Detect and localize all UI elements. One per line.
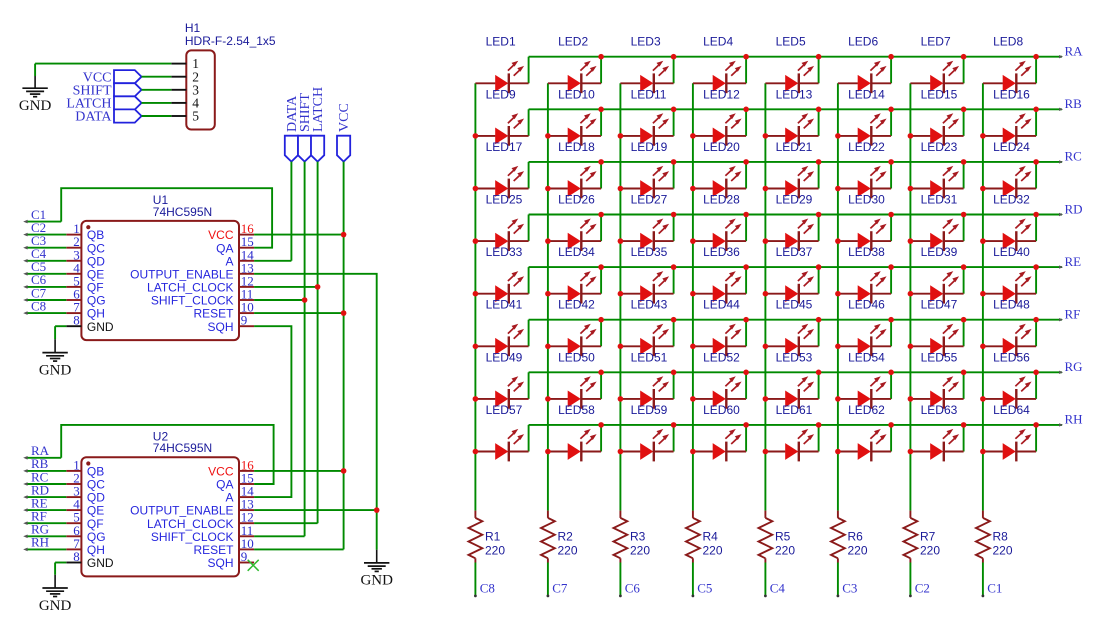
svg-text:QG: QG xyxy=(87,530,106,544)
svg-text:LED38: LED38 xyxy=(848,245,885,259)
svg-text:R7: R7 xyxy=(920,530,936,544)
svg-text:GND: GND xyxy=(87,556,114,570)
svg-text:8: 8 xyxy=(73,313,80,328)
svg-text:LED10: LED10 xyxy=(558,87,595,101)
svg-text:SHIFT_CLOCK: SHIFT_CLOCK xyxy=(151,530,234,544)
svg-text:LED61: LED61 xyxy=(776,403,813,417)
svg-text:5: 5 xyxy=(192,109,199,124)
svg-text:LED11: LED11 xyxy=(631,87,667,101)
svg-text:RF: RF xyxy=(1065,307,1081,322)
svg-text:LED57: LED57 xyxy=(486,403,523,417)
svg-text:C6: C6 xyxy=(625,580,641,595)
svg-text:LED40: LED40 xyxy=(993,245,1030,259)
svg-text:VCC: VCC xyxy=(337,103,352,132)
svg-text:LED19: LED19 xyxy=(631,140,668,154)
svg-text:VCC: VCC xyxy=(208,228,234,242)
svg-text:RESET: RESET xyxy=(193,307,234,321)
svg-text:QF: QF xyxy=(87,517,104,531)
svg-text:74HC595N: 74HC595N xyxy=(153,441,212,455)
svg-text:8: 8 xyxy=(73,549,80,564)
svg-text:A: A xyxy=(225,491,233,505)
svg-text:QF: QF xyxy=(87,281,104,295)
svg-text:LED35: LED35 xyxy=(631,245,668,259)
svg-text:LED17: LED17 xyxy=(486,140,523,154)
svg-text:220: 220 xyxy=(630,544,650,558)
svg-text:220: 220 xyxy=(558,544,578,558)
svg-text:H1: H1 xyxy=(185,21,201,35)
svg-text:A: A xyxy=(225,254,233,268)
svg-text:LED54: LED54 xyxy=(848,350,885,364)
svg-text:LED2: LED2 xyxy=(558,35,588,49)
svg-text:LED39: LED39 xyxy=(921,245,958,259)
svg-text:LED12: LED12 xyxy=(703,87,740,101)
svg-text:220: 220 xyxy=(848,544,868,558)
svg-text:RG: RG xyxy=(1065,359,1083,374)
svg-text:RC: RC xyxy=(1065,149,1082,164)
svg-text:LED16: LED16 xyxy=(993,87,1030,101)
svg-text:LATCH: LATCH xyxy=(311,87,326,132)
svg-text:RH: RH xyxy=(1065,412,1083,427)
svg-text:C1: C1 xyxy=(987,580,1002,595)
svg-text:LED48: LED48 xyxy=(993,298,1030,312)
svg-text:R1: R1 xyxy=(485,530,501,544)
svg-text:GND: GND xyxy=(19,98,52,114)
svg-text:LED28: LED28 xyxy=(703,193,740,207)
svg-text:LED6: LED6 xyxy=(848,35,878,49)
svg-text:SHIFT_CLOCK: SHIFT_CLOCK xyxy=(151,294,234,308)
svg-text:LED51: LED51 xyxy=(631,350,668,364)
svg-text:LED4: LED4 xyxy=(703,35,733,49)
svg-text:LED55: LED55 xyxy=(921,350,958,364)
svg-text:QA: QA xyxy=(216,241,233,255)
svg-text:R6: R6 xyxy=(848,530,864,544)
svg-text:LED34: LED34 xyxy=(558,245,595,259)
svg-text:LED60: LED60 xyxy=(703,403,740,417)
svg-text:C8: C8 xyxy=(31,298,46,313)
svg-text:LED5: LED5 xyxy=(776,35,806,49)
svg-text:C8: C8 xyxy=(480,580,495,595)
svg-text:LED15: LED15 xyxy=(921,87,958,101)
svg-text:LED32: LED32 xyxy=(993,193,1030,207)
svg-text:C3: C3 xyxy=(842,580,857,595)
svg-text:QG: QG xyxy=(87,294,106,308)
svg-text:LATCH_CLOCK: LATCH_CLOCK xyxy=(147,281,233,295)
svg-text:LED33: LED33 xyxy=(486,245,523,259)
svg-text:QC: QC xyxy=(87,478,105,492)
svg-text:LED18: LED18 xyxy=(558,140,595,154)
svg-text:QD: QD xyxy=(87,491,105,505)
svg-text:QB: QB xyxy=(87,228,104,242)
svg-text:LED56: LED56 xyxy=(993,350,1030,364)
svg-text:LED42: LED42 xyxy=(558,298,595,312)
svg-text:LED7: LED7 xyxy=(921,35,951,49)
svg-text:QH: QH xyxy=(87,543,105,557)
svg-text:220: 220 xyxy=(993,544,1013,558)
svg-text:QB: QB xyxy=(87,465,104,479)
svg-text:LED63: LED63 xyxy=(921,403,958,417)
svg-text:LED8: LED8 xyxy=(993,35,1023,49)
svg-text:C2: C2 xyxy=(915,580,930,595)
svg-text:LED45: LED45 xyxy=(776,298,813,312)
svg-text:VCC: VCC xyxy=(208,465,234,479)
svg-text:RE: RE xyxy=(1065,254,1082,269)
svg-text:QE: QE xyxy=(87,504,104,518)
svg-text:GND: GND xyxy=(360,573,393,589)
svg-text:LED29: LED29 xyxy=(776,193,813,207)
svg-text:LED1: LED1 xyxy=(486,35,516,49)
svg-text:220: 220 xyxy=(775,544,795,558)
svg-text:R3: R3 xyxy=(630,530,646,544)
svg-text:74HC595N: 74HC595N xyxy=(153,205,212,219)
svg-text:R4: R4 xyxy=(703,530,719,544)
svg-text:LED3: LED3 xyxy=(631,35,661,49)
svg-text:LED14: LED14 xyxy=(848,87,885,101)
svg-text:LED24: LED24 xyxy=(993,140,1030,154)
svg-text:HDR-F-2.54_1x5: HDR-F-2.54_1x5 xyxy=(185,34,276,48)
svg-text:LED50: LED50 xyxy=(558,350,595,364)
svg-text:RB: RB xyxy=(1065,96,1083,111)
svg-text:C7: C7 xyxy=(552,580,568,595)
svg-text:OUTPUT_ENABLE: OUTPUT_ENABLE xyxy=(130,267,233,281)
svg-text:R2: R2 xyxy=(558,530,574,544)
svg-text:LED31: LED31 xyxy=(921,193,958,207)
svg-text:LED20: LED20 xyxy=(703,140,740,154)
svg-text:C5: C5 xyxy=(697,580,712,595)
svg-text:R5: R5 xyxy=(775,530,791,544)
svg-text:SQH: SQH xyxy=(207,556,233,570)
svg-text:LED9: LED9 xyxy=(486,87,516,101)
svg-text:LED58: LED58 xyxy=(558,403,595,417)
svg-text:LED59: LED59 xyxy=(631,403,668,417)
svg-text:GND: GND xyxy=(87,320,114,334)
svg-text:SQH: SQH xyxy=(207,320,233,334)
svg-text:220: 220 xyxy=(485,544,505,558)
svg-text:GND: GND xyxy=(39,362,72,378)
svg-text:QD: QD xyxy=(87,254,105,268)
svg-text:LED23: LED23 xyxy=(921,140,958,154)
svg-text:220: 220 xyxy=(920,544,940,558)
svg-text:RESET: RESET xyxy=(193,543,234,557)
svg-text:LED44: LED44 xyxy=(703,298,740,312)
svg-text:LED25: LED25 xyxy=(486,193,523,207)
svg-text:LED52: LED52 xyxy=(703,350,740,364)
svg-text:LED30: LED30 xyxy=(848,193,885,207)
svg-text:LED37: LED37 xyxy=(776,245,813,259)
svg-text:LED41: LED41 xyxy=(486,298,523,312)
svg-text:9: 9 xyxy=(241,549,248,564)
svg-text:R8: R8 xyxy=(993,530,1009,544)
svg-text:LATCH_CLOCK: LATCH_CLOCK xyxy=(147,517,233,531)
svg-text:9: 9 xyxy=(241,313,248,328)
svg-text:RH: RH xyxy=(31,535,49,550)
svg-text:LED22: LED22 xyxy=(848,140,885,154)
svg-text:C4: C4 xyxy=(770,580,786,595)
svg-text:LED21: LED21 xyxy=(776,140,813,154)
svg-text:QH: QH xyxy=(87,307,105,321)
svg-text:OUTPUT_ENABLE: OUTPUT_ENABLE xyxy=(130,504,233,518)
svg-text:LED64: LED64 xyxy=(993,403,1030,417)
svg-text:LED13: LED13 xyxy=(776,87,813,101)
svg-text:GND: GND xyxy=(39,598,72,614)
svg-text:LED49: LED49 xyxy=(486,350,523,364)
svg-text:QE: QE xyxy=(87,267,104,281)
svg-text:DATA: DATA xyxy=(75,110,112,125)
svg-text:LED53: LED53 xyxy=(776,350,813,364)
svg-text:220: 220 xyxy=(703,544,723,558)
svg-text:LED26: LED26 xyxy=(558,193,595,207)
svg-text:RA: RA xyxy=(1065,44,1084,59)
svg-text:RD: RD xyxy=(1065,201,1083,216)
svg-text:QA: QA xyxy=(216,478,233,492)
svg-text:LED43: LED43 xyxy=(631,298,668,312)
svg-text:LED46: LED46 xyxy=(848,298,885,312)
svg-text:LED27: LED27 xyxy=(631,193,668,207)
svg-text:LED47: LED47 xyxy=(921,298,958,312)
svg-text:LED62: LED62 xyxy=(848,403,885,417)
svg-text:LED36: LED36 xyxy=(703,245,740,259)
svg-text:QC: QC xyxy=(87,241,105,255)
